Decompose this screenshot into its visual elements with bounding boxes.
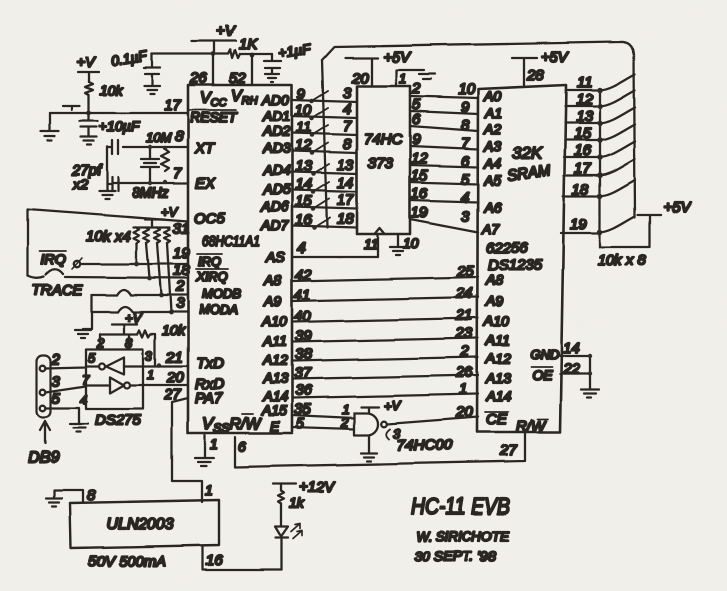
svg-text:TRACE: TRACE bbox=[32, 282, 84, 299]
svg-text:4: 4 bbox=[80, 392, 87, 407]
svg-text:A0: A0 bbox=[483, 88, 501, 104]
wires AD0-AD7 to latch bbox=[292, 100, 357, 228]
svg-text:+V: +V bbox=[161, 204, 179, 219]
svg-text:16: 16 bbox=[574, 142, 591, 159]
svg-text:A12: A12 bbox=[262, 352, 288, 368]
svg-text:5: 5 bbox=[296, 415, 305, 432]
svg-text:12: 12 bbox=[576, 91, 593, 108]
svg-text:12: 12 bbox=[411, 150, 428, 167]
svg-text:36: 36 bbox=[295, 382, 312, 399]
label date 30 SEPT. '98 bbox=[414, 548, 496, 564]
wire GND/OE down bbox=[588, 354, 592, 390]
svg-text:+V: +V bbox=[76, 54, 97, 71]
node TxD pull-up bbox=[157, 363, 161, 367]
ground (0.1uF) bbox=[144, 86, 160, 94]
wire LED to pin 16 bbox=[280, 538, 282, 570]
svg-text:7: 7 bbox=[343, 118, 352, 135]
svg-text:1: 1 bbox=[210, 436, 218, 452]
svg-text:4: 4 bbox=[343, 101, 351, 118]
svg-text:37: 37 bbox=[294, 365, 311, 382]
svg-text:22: 22 bbox=[562, 361, 580, 378]
wire gate ground leg bbox=[368, 435, 370, 452]
svg-text:GND: GND bbox=[530, 347, 559, 362]
svg-text:17: 17 bbox=[164, 97, 181, 114]
svg-text:41: 41 bbox=[294, 287, 311, 304]
svg-text:13: 13 bbox=[576, 108, 593, 125]
label 27pF x2 bbox=[71, 162, 103, 192]
svg-text:2: 2 bbox=[96, 335, 105, 350]
labels HC11 pins 42-36 bbox=[294, 267, 312, 432]
IC DS275 bbox=[86, 349, 143, 429]
svg-text:21: 21 bbox=[165, 349, 183, 366]
svg-text:AD4: AD4 bbox=[262, 162, 290, 178]
svg-text:AS: AS bbox=[265, 249, 285, 265]
svg-text:AD1: AD1 bbox=[262, 108, 290, 124]
capacitor 10uF (reset) bbox=[80, 113, 141, 136]
svg-text:1: 1 bbox=[459, 381, 467, 398]
svg-text:6: 6 bbox=[461, 153, 470, 170]
buffer gate bottom (receiver) bbox=[110, 377, 130, 393]
svg-text:A15: A15 bbox=[261, 402, 287, 418]
wire reset line to pin 17 bbox=[50, 112, 188, 114]
resistor 1K (VRH) bbox=[228, 36, 258, 58]
wire XIRQ pin 18 bbox=[65, 262, 190, 279]
svg-text:18: 18 bbox=[572, 181, 589, 198]
svg-text:8: 8 bbox=[87, 487, 96, 504]
svg-text:5: 5 bbox=[52, 390, 61, 407]
svg-text:12: 12 bbox=[295, 137, 312, 154]
+V supply (gate) bbox=[361, 398, 402, 413]
svg-text:10: 10 bbox=[458, 81, 475, 98]
label RxD bbox=[195, 376, 224, 393]
resistor 10M bbox=[161, 149, 169, 171]
ground (DS275 pin4) bbox=[70, 424, 88, 432]
svg-text:2: 2 bbox=[51, 351, 61, 368]
svg-text:10k: 10k bbox=[162, 322, 186, 338]
svg-text:74HC00: 74HC00 bbox=[397, 437, 453, 454]
contact circle IRQ bbox=[72, 258, 82, 269]
svg-text:2: 2 bbox=[411, 80, 421, 97]
wire XT pin 8 bbox=[123, 128, 188, 147]
wire data bus vertical bbox=[599, 89, 601, 232]
wire pull-up drops bbox=[136, 243, 171, 312]
svg-text:A13: A13 bbox=[485, 370, 511, 386]
node reset junction bbox=[87, 111, 92, 116]
label RESET (overlined) bbox=[189, 109, 238, 125]
svg-text:A11: A11 bbox=[262, 333, 287, 349]
svg-text:XIRQ: XIRQ bbox=[195, 269, 228, 284]
svg-text:1: 1 bbox=[147, 367, 154, 382]
svg-text:24: 24 bbox=[455, 285, 473, 302]
label R/W SRAM (overlined W) bbox=[516, 418, 548, 435]
resistor 1K (LED) bbox=[278, 491, 305, 511]
gate 74HC00 U1 bbox=[354, 413, 387, 435]
label CE (overlined) bbox=[485, 411, 508, 428]
wire top bus bbox=[322, 42, 635, 217]
+V supply (DS275) bbox=[112, 310, 143, 334]
label 74HC00 bbox=[397, 437, 453, 454]
switch TRACE arc bbox=[28, 269, 63, 278]
wire to 1uF bbox=[240, 53, 272, 55]
svg-text:E: E bbox=[270, 418, 280, 434]
svg-text:62256: 62256 bbox=[486, 240, 528, 257]
crystal 8MHz bbox=[132, 147, 169, 200]
svg-text:EX: EX bbox=[195, 175, 216, 192]
svg-text:38: 38 bbox=[295, 346, 312, 363]
svg-text:11: 11 bbox=[577, 74, 593, 91]
arrow DB9 bbox=[28, 421, 59, 466]
wire pin 52 bbox=[229, 55, 252, 87]
label PA7 bbox=[195, 390, 223, 407]
svg-text:2: 2 bbox=[340, 415, 349, 430]
node XT junctions bbox=[148, 145, 167, 150]
svg-text:AD3: AD3 bbox=[262, 140, 290, 156]
svg-text:19: 19 bbox=[411, 204, 428, 221]
node data bus junctions bbox=[597, 87, 603, 235]
wires SRAM data pins bbox=[561, 90, 600, 233]
svg-text:MODA: MODA bbox=[199, 302, 238, 317]
svg-text:AD0: AD0 bbox=[261, 92, 289, 108]
wire latch pin 1 to ground bbox=[396, 70, 424, 86]
ground (gate) bbox=[361, 453, 377, 461]
svg-text:19: 19 bbox=[570, 216, 587, 233]
wire to LED bbox=[280, 504, 282, 526]
connector DB9 bbox=[37, 355, 51, 417]
svg-text:11: 11 bbox=[364, 236, 379, 252]
ground (ULN pin 8) bbox=[46, 498, 62, 506]
svg-text:16: 16 bbox=[206, 552, 223, 569]
ground (reset button) bbox=[41, 131, 59, 140]
svg-text:ULN2003: ULN2003 bbox=[106, 516, 174, 533]
node Vcc bbox=[211, 52, 216, 57]
svg-text:XT: XT bbox=[194, 140, 216, 157]
wire ULN pin 8 to ground bbox=[54, 487, 96, 504]
LED D1 bbox=[275, 524, 302, 539]
svg-text:AD2: AD2 bbox=[262, 123, 290, 139]
wire GND pin 14 bbox=[530, 340, 590, 362]
svg-text:A5: A5 bbox=[483, 172, 501, 188]
resistor network 10k x8 branches bbox=[598, 74, 647, 269]
svg-text:10k x4: 10k x4 bbox=[86, 228, 130, 245]
svg-text:IRQ: IRQ bbox=[198, 254, 221, 269]
label IRQ pin (overlined) bbox=[197, 254, 222, 269]
svg-text:PA7: PA7 bbox=[195, 390, 223, 407]
svg-text:17: 17 bbox=[574, 160, 591, 177]
svg-text:42: 42 bbox=[295, 267, 312, 284]
svg-text:3: 3 bbox=[52, 373, 61, 390]
svg-text:7: 7 bbox=[461, 135, 470, 152]
svg-text:10k x 8: 10k x 8 bbox=[598, 252, 647, 269]
svg-text:50V 500mA: 50V 500mA bbox=[88, 553, 166, 570]
svg-text:DS275: DS275 bbox=[95, 412, 142, 429]
svg-text:9: 9 bbox=[412, 131, 421, 148]
svg-text:7: 7 bbox=[173, 165, 182, 182]
node VRH bbox=[250, 53, 255, 58]
labels AD0-AD7 bbox=[260, 92, 290, 233]
svg-text:DB9: DB9 bbox=[28, 449, 59, 466]
+5V supply (latch pin 20) bbox=[345, 49, 412, 87]
svg-text:+12V: +12V bbox=[299, 479, 336, 496]
labels latch pins 3,4,7,8,13,14,17,18 bbox=[337, 85, 354, 228]
svg-text:IRQ: IRQ bbox=[41, 251, 66, 267]
label XT bbox=[194, 140, 216, 157]
wire TxD pin 21 bbox=[124, 348, 188, 366]
wire DS275 supply rail bbox=[96, 334, 137, 350]
wire ULN pin 16 bbox=[203, 546, 281, 570]
svg-text:1: 1 bbox=[205, 482, 213, 498]
label 10M bbox=[146, 130, 171, 145]
ground (latch pin 1) bbox=[419, 74, 435, 79]
svg-text:16: 16 bbox=[411, 185, 428, 202]
svg-text:13: 13 bbox=[337, 157, 354, 174]
svg-text:+5V: +5V bbox=[541, 49, 570, 66]
capacitor 1uF bbox=[264, 40, 313, 73]
svg-text:8MHz: 8MHz bbox=[132, 184, 169, 200]
svg-text:+V: +V bbox=[125, 310, 143, 325]
svg-text:32K: 32K bbox=[512, 144, 543, 163]
label TRACE bbox=[32, 282, 84, 299]
svg-text:21: 21 bbox=[455, 307, 473, 324]
wire AD bus vertical bbox=[322, 60, 327, 228]
ground (Vss) bbox=[195, 458, 214, 466]
svg-text:10k: 10k bbox=[100, 82, 124, 98]
svg-text:40: 40 bbox=[294, 308, 311, 325]
+5V supply (pull-up network) bbox=[600, 199, 692, 247]
resistor network 10k x4 bbox=[86, 227, 170, 245]
labels A0-A7 bbox=[481, 88, 502, 237]
wire OC5 to TRACE bbox=[28, 209, 190, 276]
labels A8-A14 CE inside SRAM bbox=[483, 272, 511, 404]
svg-text:A9: A9 bbox=[263, 293, 281, 309]
wire 27pF common leg bbox=[106, 147, 108, 190]
capacitor 0.1uF label bbox=[110, 47, 150, 69]
wire Vss pin 1 bbox=[205, 435, 218, 457]
svg-text:8: 8 bbox=[175, 128, 184, 145]
wire reset left leg bbox=[49, 113, 51, 130]
label 68HC11A1 bbox=[202, 233, 260, 250]
svg-text:2: 2 bbox=[175, 278, 185, 295]
label IRQ (overlined) bbox=[40, 251, 66, 267]
svg-text:1k: 1k bbox=[289, 495, 305, 511]
svg-text:x2: x2 bbox=[72, 176, 88, 192]
svg-text:A2: A2 bbox=[483, 121, 501, 137]
svg-text:5: 5 bbox=[461, 171, 470, 188]
svg-text:18: 18 bbox=[337, 211, 354, 228]
svg-text:VSSR/W: VSSR/W bbox=[202, 414, 262, 435]
svg-text:A9: A9 bbox=[485, 293, 503, 309]
ground (latch pin 10) bbox=[390, 247, 406, 255]
svg-text:TxD: TxD bbox=[196, 355, 224, 372]
svg-text:A10: A10 bbox=[261, 313, 287, 329]
label E bbox=[270, 418, 280, 434]
wire IRQ pin 19 bbox=[82, 245, 190, 264]
wire pull-up rail bbox=[133, 226, 170, 228]
svg-text:3: 3 bbox=[343, 85, 352, 102]
svg-text:A10: A10 bbox=[483, 313, 509, 329]
svg-text:CE: CE bbox=[486, 411, 508, 428]
ground (1uF) bbox=[265, 74, 279, 82]
svg-text:HC-11 EVB: HC-11 EVB bbox=[411, 493, 510, 519]
+5V supply (SRAM pin 28) bbox=[512, 49, 570, 86]
svg-text:7: 7 bbox=[82, 372, 90, 387]
node EX junctions bbox=[148, 180, 167, 185]
+V supply (reset pull-up) bbox=[76, 54, 99, 82]
svg-text:A1: A1 bbox=[484, 105, 502, 121]
wire EX pin 7 bbox=[112, 165, 188, 183]
svg-text:20: 20 bbox=[351, 70, 369, 87]
labels latch pins 2,5,6,9,12,15,16,19 bbox=[411, 80, 428, 221]
wire OE pin 22 bbox=[531, 361, 590, 383]
capacitor 27pF top bbox=[107, 140, 118, 154]
+12V supply bbox=[273, 479, 336, 496]
svg-text:27: 27 bbox=[163, 386, 181, 403]
pushbutton reset bbox=[63, 106, 80, 110]
svg-text:373: 373 bbox=[368, 155, 394, 172]
svg-text:10M: 10M bbox=[146, 130, 171, 145]
wire PA7 pin 27 bbox=[163, 386, 213, 502]
svg-text:10: 10 bbox=[295, 102, 312, 119]
label MODA bbox=[199, 302, 238, 317]
wire 10k to reset node bbox=[88, 95, 90, 112]
label MODB bbox=[202, 286, 241, 301]
svg-text:3: 3 bbox=[461, 208, 470, 225]
svg-text:AD5: AD5 bbox=[262, 181, 290, 197]
svg-text:4: 4 bbox=[461, 189, 469, 206]
svg-text:9: 9 bbox=[297, 86, 306, 103]
svg-text:20: 20 bbox=[166, 369, 184, 386]
wire gate out to CE pin 20 bbox=[387, 417, 478, 424]
IC ULN2003 bbox=[70, 500, 219, 548]
svg-text:26: 26 bbox=[455, 364, 473, 381]
svg-text:14: 14 bbox=[337, 175, 354, 192]
label VssR/W (overlined W) bbox=[202, 414, 262, 435]
svg-text:OC5: OC5 bbox=[194, 210, 226, 227]
svg-text:13: 13 bbox=[295, 158, 312, 175]
labels SRAM pins 25,24,21,23,2,26,1,20 bbox=[455, 263, 474, 421]
svg-text:74HC: 74HC bbox=[364, 131, 403, 148]
wire DB9-5 to pin4 ground bbox=[46, 390, 87, 423]
svg-text:A8: A8 bbox=[485, 272, 503, 288]
svg-text:23: 23 bbox=[455, 325, 473, 342]
wire A15 to gate in 1 bbox=[292, 402, 354, 418]
label XIRQ pin (overlined) bbox=[195, 269, 228, 284]
ground (MOD) bbox=[75, 330, 91, 338]
wire latch pin 10 ground bbox=[398, 234, 419, 251]
label Vcc bbox=[200, 90, 227, 109]
labels SRAM pins 11-19 bbox=[570, 74, 593, 233]
resistor 10k (reset pull-up) bbox=[85, 82, 124, 98]
IC 74HC373 bbox=[357, 86, 410, 234]
svg-text:+10µF: +10µF bbox=[99, 118, 141, 134]
wire MOD ground leg bbox=[83, 295, 92, 329]
labels SRAM pins 10,9,8,7,6,5,4,3 bbox=[458, 81, 475, 225]
label pin 3 squiggle bbox=[386, 426, 401, 441]
svg-text:+5V: +5V bbox=[663, 199, 692, 216]
label 32K SRAM bbox=[506, 144, 552, 185]
svg-text:8: 8 bbox=[125, 335, 133, 350]
svg-text:17: 17 bbox=[337, 192, 354, 209]
labels A8-A15 bbox=[261, 272, 288, 418]
resistor 10k (TxD pull-up) bbox=[137, 322, 186, 365]
pin 17 label bbox=[164, 97, 181, 114]
ground (27pF) bbox=[99, 191, 115, 199]
svg-text:1: 1 bbox=[399, 71, 406, 86]
svg-text:68HC11A1: 68HC11A1 bbox=[202, 233, 260, 250]
node pull-up junctions bbox=[134, 262, 174, 315]
svg-text:14: 14 bbox=[563, 340, 580, 357]
svg-text:+V: +V bbox=[216, 23, 237, 40]
svg-text:11: 11 bbox=[296, 119, 312, 136]
svg-text:16: 16 bbox=[295, 212, 312, 229]
svg-text:R/W: R/W bbox=[516, 418, 547, 435]
svg-text:A8: A8 bbox=[263, 272, 281, 288]
svg-text:+5V: +5V bbox=[383, 49, 412, 66]
svg-text:MODB: MODB bbox=[202, 286, 241, 301]
wire DB9-3 to gate in bbox=[46, 372, 110, 392]
svg-text:RESET: RESET bbox=[190, 109, 238, 125]
wire AD bus diagonals bbox=[312, 91, 330, 228]
svg-text:4: 4 bbox=[297, 240, 305, 257]
wire MODB pin 2 with jumper bbox=[92, 278, 188, 295]
svg-text:6: 6 bbox=[412, 111, 421, 128]
svg-text:3: 3 bbox=[176, 295, 185, 312]
svg-text:15: 15 bbox=[574, 125, 591, 142]
svg-text:5: 5 bbox=[88, 350, 96, 365]
svg-text:AD6: AD6 bbox=[260, 198, 288, 214]
+V supply (pull-ups) bbox=[145, 204, 179, 227]
svg-text:8: 8 bbox=[461, 117, 470, 134]
wires latch outputs to SRAM bbox=[410, 96, 478, 232]
svg-text:A6: A6 bbox=[483, 199, 501, 215]
+V supply (Vcc rail) bbox=[192, 23, 237, 54]
svg-text:OE: OE bbox=[532, 367, 553, 383]
svg-text:W. SIRICHOTE: W. SIRICHOTE bbox=[416, 528, 510, 544]
ground (SRAM OE) bbox=[581, 390, 599, 398]
svg-text:14: 14 bbox=[295, 176, 312, 193]
wire R/W to SRAM pin 27 bbox=[235, 433, 525, 467]
svg-text:27: 27 bbox=[499, 442, 517, 459]
wire Vcc rail bbox=[152, 53, 228, 55]
ground (10uF) bbox=[81, 137, 97, 145]
capacitor 0.1uF bbox=[144, 54, 160, 85]
svg-text:A12: A12 bbox=[485, 350, 511, 366]
svg-text:+V: +V bbox=[384, 398, 402, 413]
wire pin 26 bbox=[189, 54, 213, 87]
svg-text:A4: A4 bbox=[483, 155, 501, 171]
svg-text:A3: A3 bbox=[483, 138, 501, 154]
svg-text:A11: A11 bbox=[485, 332, 510, 348]
svg-text:8: 8 bbox=[343, 136, 352, 153]
label title HC-11 EVB bbox=[411, 493, 510, 519]
label author W. SIRICHOTE bbox=[416, 528, 510, 544]
svg-text:2: 2 bbox=[460, 343, 470, 360]
wire AS to latch pin 11 bbox=[292, 234, 379, 257]
label EX bbox=[195, 175, 216, 192]
svg-text:A13: A13 bbox=[262, 370, 288, 386]
svg-text:10: 10 bbox=[403, 235, 419, 251]
wire E to gate in 2 bbox=[292, 415, 354, 430]
IC 68HC11A1 bbox=[188, 85, 292, 433]
label OC5 bbox=[194, 210, 226, 227]
svg-text:6: 6 bbox=[238, 438, 246, 454]
label AS bbox=[265, 249, 285, 265]
label VRH bbox=[231, 88, 258, 107]
svg-text:AD7: AD7 bbox=[260, 217, 289, 233]
capacitor 27pF bottom bbox=[107, 177, 118, 191]
svg-text:15: 15 bbox=[295, 193, 312, 210]
svg-text:25: 25 bbox=[456, 263, 474, 280]
wire RxD pin 20 bbox=[130, 367, 188, 386]
